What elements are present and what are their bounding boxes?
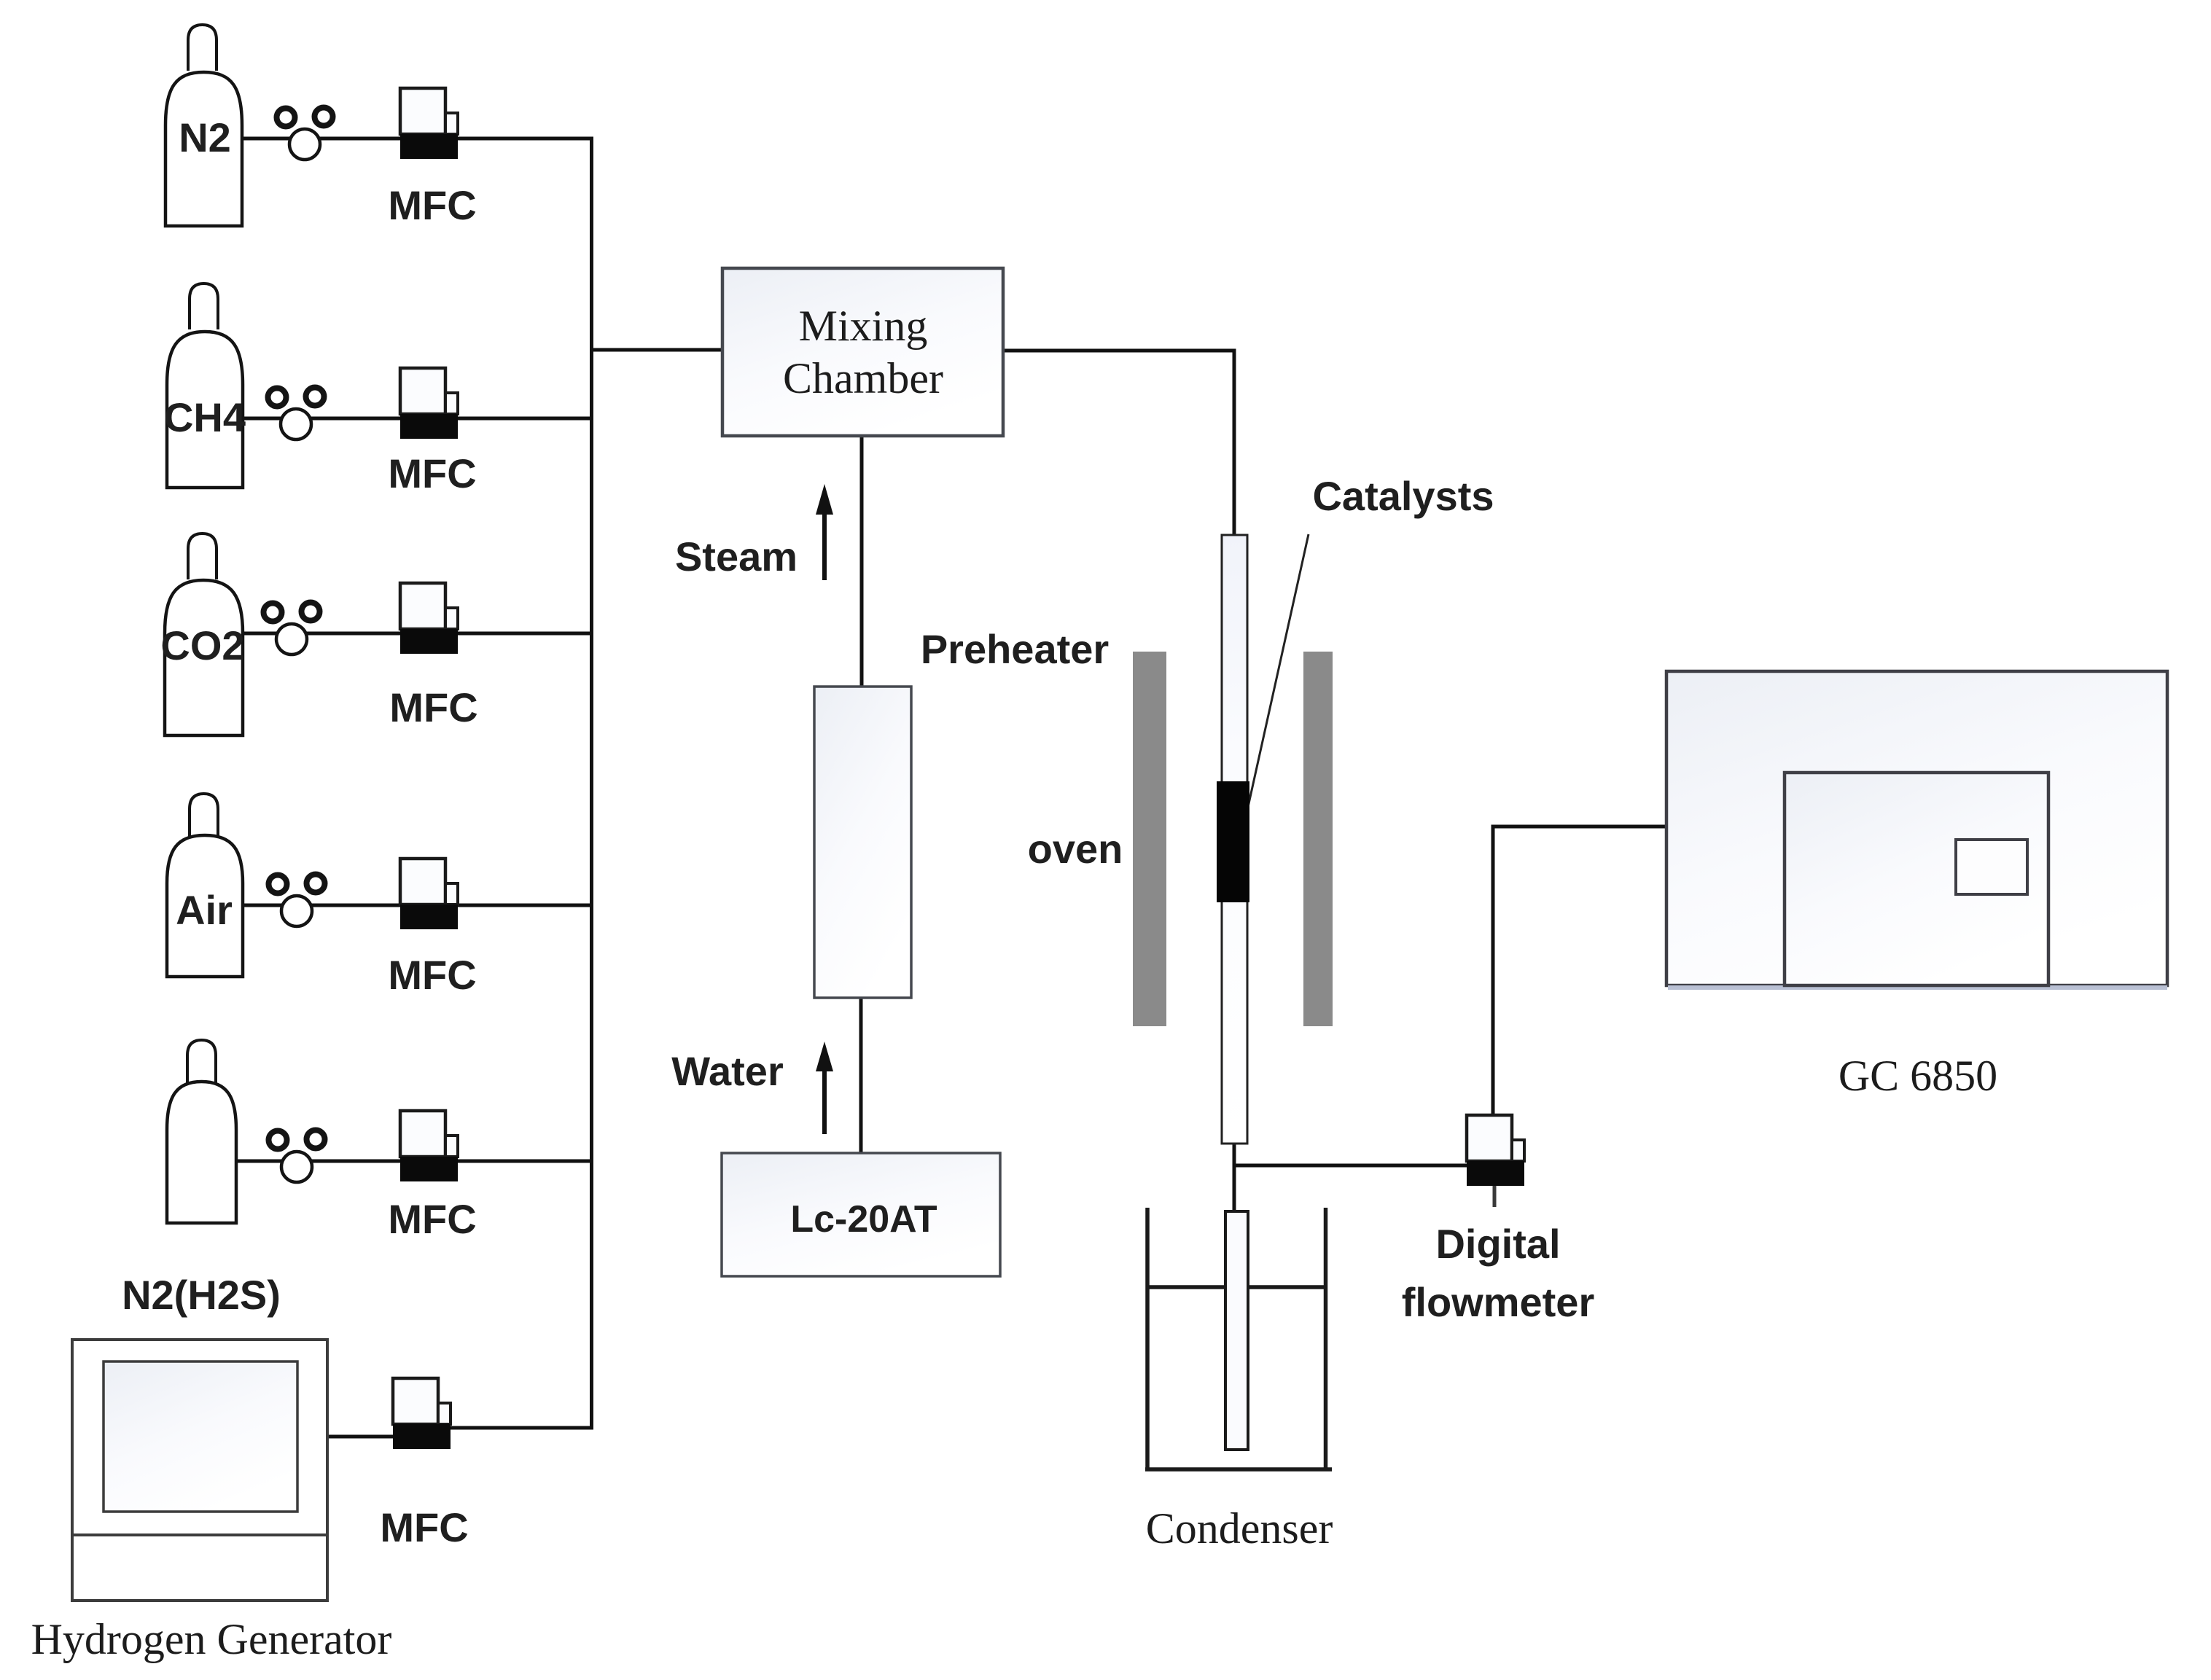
- wire bus to mixing chamber: [593, 348, 722, 352]
- condenser beaker: [1145, 1208, 1332, 1469]
- wire mixing chamber to preheater: [860, 434, 864, 688]
- valve CH4: [268, 388, 324, 440]
- water arrow: [816, 1042, 833, 1134]
- GC small rect: [1956, 840, 2027, 894]
- MFC 1 (N2): [400, 88, 458, 159]
- svg-text:CO2: CO2: [160, 622, 244, 668]
- hydrogen generator monitor: [72, 1340, 327, 1601]
- catalyst band: [1217, 781, 1249, 902]
- svg-text:Condenser: Condenser: [1146, 1504, 1333, 1552]
- MFC 6 (hydrogen): [393, 1378, 451, 1449]
- MFC 4 (Air): [400, 859, 458, 929]
- svg-text:flowmeter: flowmeter: [1402, 1279, 1595, 1325]
- svg-text:GC 6850: GC 6850: [1838, 1052, 1997, 1100]
- svg-text:Lc-20AT: Lc-20AT: [790, 1198, 937, 1241]
- oven bar left: [1133, 652, 1166, 1026]
- wire bus vertical: [590, 137, 593, 1430]
- svg-text:Steam: Steam: [675, 534, 798, 579]
- MFC 2 (CH4): [400, 368, 458, 439]
- svg-text:MFC: MFC: [380, 1504, 468, 1550]
- svg-text:MFC: MFC: [388, 1196, 476, 1242]
- wire preheater to Lc-20AT: [859, 996, 863, 1154]
- wire mixing chamber to reactor: [1003, 351, 1236, 537]
- MFC 3 (CO2): [400, 583, 458, 654]
- svg-text:Catalysts: Catalysts: [1312, 473, 1494, 519]
- wire flowmeter bottom stub: [1493, 1186, 1497, 1207]
- mixing chamber box: [722, 268, 1003, 436]
- GC 6850 outer box: [1666, 671, 2167, 985]
- condenser water line: [1149, 1285, 1324, 1289]
- svg-text:MFC: MFC: [388, 450, 476, 496]
- wire N2H2S to bus: [236, 1160, 593, 1163]
- gas cylinder Air: [167, 794, 243, 977]
- wire CH4 to bus: [243, 417, 593, 421]
- steam arrow: [816, 484, 833, 580]
- svg-text:Chamber: Chamber: [783, 354, 943, 402]
- wire Air to bus: [243, 904, 593, 907]
- svg-text:MFC: MFC: [388, 952, 476, 998]
- valve CO2: [264, 603, 320, 655]
- gas cylinder N2(H2S): [167, 1040, 236, 1223]
- svg-text:MFC: MFC: [388, 182, 476, 228]
- valve N2: [277, 108, 333, 160]
- MFC 5 (N2H2S): [400, 1111, 458, 1181]
- svg-text:CH4: CH4: [164, 394, 246, 440]
- wire flowmeter to GC: [1493, 827, 1666, 1163]
- svg-text:N2: N2: [179, 114, 231, 160]
- reactor tube: [1222, 535, 1247, 1144]
- svg-text:Preheater: Preheater: [921, 626, 1109, 672]
- svg-text:Mixing: Mixing: [799, 302, 928, 350]
- wire reactor bottom to flowmeter: [1234, 1164, 1496, 1168]
- condenser tube: [1225, 1211, 1248, 1450]
- valve Air: [269, 875, 325, 927]
- svg-text:Air: Air: [176, 887, 233, 933]
- GC inner box: [1785, 773, 2048, 985]
- Lc-20AT box: [722, 1153, 1000, 1276]
- oven bar right: [1303, 652, 1333, 1026]
- preheater box: [814, 687, 911, 998]
- label Digital flowmeter: [1402, 1221, 1595, 1325]
- gas cylinder CO2: [160, 534, 244, 735]
- GC bottom shadow: [1668, 985, 2167, 990]
- wire hydrogen generator to MFC6: [327, 1435, 412, 1439]
- wire MFC6 to bus: [430, 1426, 593, 1430]
- svg-text:MFC: MFC: [389, 684, 477, 730]
- wire N2 to bus: [242, 137, 593, 141]
- catalysts leader line: [1248, 534, 1309, 807]
- svg-text:oven: oven: [1028, 826, 1123, 872]
- svg-text:Hydrogen Generator: Hydrogen Generator: [31, 1615, 392, 1663]
- wire CO2 to bus: [243, 632, 593, 636]
- wire reactor bottom to condenser tube: [1233, 1142, 1236, 1210]
- gas cylinder CH4: [164, 284, 246, 488]
- svg-text:N2(H2S): N2(H2S): [122, 1272, 281, 1318]
- valve N2(H2S): [269, 1130, 325, 1183]
- digital flowmeter: [1467, 1115, 1524, 1186]
- gas cylinder N2: [165, 25, 242, 226]
- svg-text:Digital: Digital: [1435, 1221, 1560, 1267]
- svg-text:Water: Water: [671, 1048, 784, 1094]
